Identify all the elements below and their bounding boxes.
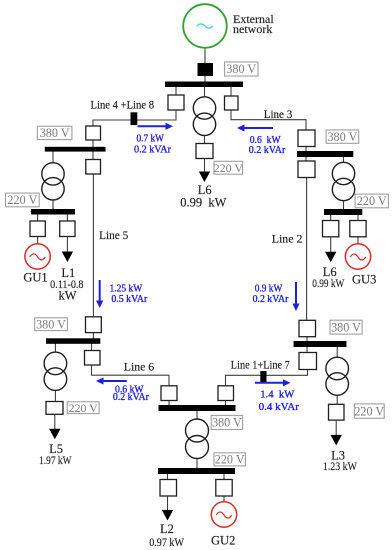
svg-text:1.23 kW: 1.23 kW xyxy=(323,459,358,473)
svg-text:0.2 kVAr: 0.2 kVAr xyxy=(113,391,149,403)
svg-text:220 V: 220 V xyxy=(69,401,98,415)
svg-text:220 V: 220 V xyxy=(214,161,244,175)
svg-text:1.97 kW: 1.97 kW xyxy=(39,453,72,467)
svg-text:220 V: 220 V xyxy=(354,404,384,418)
svg-text:Line 3: Line 3 xyxy=(264,107,293,121)
svg-text:Line 6: Line 6 xyxy=(124,360,154,374)
svg-text:0.5 kVAr: 0.5 kVAr xyxy=(111,293,147,305)
svg-text:L2: L2 xyxy=(160,522,174,536)
svg-text:0.99 kW: 0.99 kW xyxy=(180,196,226,210)
svg-text:Line 1+Line 7: Line 1+Line 7 xyxy=(231,358,290,372)
svg-text:220 V: 220 V xyxy=(357,194,387,208)
svg-text:0.2 kVAr: 0.2 kVAr xyxy=(253,293,289,305)
svg-text:220 V: 220 V xyxy=(7,193,37,207)
svg-text:0.97 kW: 0.97 kW xyxy=(149,535,184,549)
svg-text:380 V: 380 V xyxy=(36,317,66,331)
svg-text:380 V: 380 V xyxy=(212,416,242,430)
svg-text:0.4 kVAr: 0.4 kVAr xyxy=(259,401,300,413)
svg-text:380 V: 380 V xyxy=(40,126,70,140)
svg-text:GU2: GU2 xyxy=(211,533,235,547)
svg-text:Line 5: Line 5 xyxy=(99,228,128,242)
svg-text:220 V: 220 V xyxy=(215,453,245,467)
svg-text:1.4 kW: 1.4 kW xyxy=(260,389,295,401)
svg-text:0.2 kVAr: 0.2 kVAr xyxy=(134,144,171,156)
svg-text:0.99 kW: 0.99 kW xyxy=(312,276,345,290)
svg-text:kW: kW xyxy=(58,289,76,303)
svg-text:380 V: 380 V xyxy=(327,130,357,144)
svg-text:Line 4 +Line 8: Line 4 +Line 8 xyxy=(91,98,155,112)
svg-text:GU3: GU3 xyxy=(352,273,376,287)
svg-text:network: network xyxy=(233,22,272,36)
svg-text:380 V: 380 V xyxy=(226,62,256,76)
svg-text:GU1: GU1 xyxy=(23,271,47,285)
svg-text:380 V: 380 V xyxy=(331,320,361,334)
svg-text:Line 2: Line 2 xyxy=(272,231,303,245)
svg-text:0.2 kVAr: 0.2 kVAr xyxy=(249,144,286,156)
